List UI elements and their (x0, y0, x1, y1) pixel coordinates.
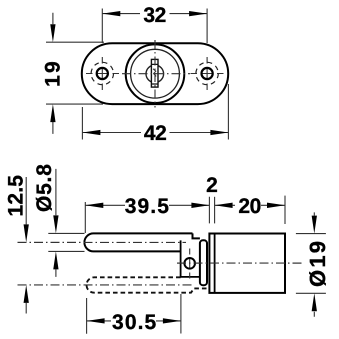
dimension 19 (42, 13, 104, 134)
svg-text:30.5: 30.5 (112, 311, 157, 334)
dimension dia 5.8 (33, 163, 85, 277)
centerline vertical of cylinder (154, 40, 156, 108)
dimension 30.5 (87, 294, 181, 334)
bracket housing (181, 240, 200, 277)
svg-text:Ø19: Ø19 (305, 239, 330, 287)
svg-text:Ø5.8: Ø5.8 (33, 163, 56, 212)
keyhole slot (151, 59, 158, 87)
lock body (209, 234, 285, 293)
dimension 32 (102, 4, 207, 43)
pin crosshair (189, 249, 191, 279)
svg-text:2: 2 (206, 174, 218, 197)
plate outline (82, 43, 228, 104)
rod step to cam (193, 233, 200, 238)
body centerline (over body) (177, 262, 303, 264)
dimension 39.5 (85, 195, 209, 233)
key wards zigzag (153, 69, 156, 77)
dimension 42 (82, 84, 228, 145)
cylinder outer circle (126, 44, 185, 103)
centerline horizontal of cylinder (over plate) (122, 73, 190, 75)
svg-text:39.5: 39.5 (125, 195, 170, 218)
dimension 2 (206, 174, 232, 224)
top rod outline (84, 233, 192, 251)
countersink dashed left (91, 62, 113, 84)
svg-text:19: 19 (42, 59, 65, 87)
svg-text:42: 42 (144, 122, 167, 145)
cylinder inner circle (131, 49, 180, 98)
svg-text:32: 32 (143, 4, 166, 27)
dimension 20 (233, 195, 285, 224)
centerline top rod (18, 241, 187, 243)
hidden bottom rod dashed (86, 277, 207, 292)
svg-text:20: 20 (238, 195, 261, 218)
countersink dashed right (196, 62, 218, 84)
crosshair left hole (86, 57, 119, 90)
svg-text:12.5: 12.5 (5, 175, 28, 217)
body collar step line (214, 234, 216, 293)
dimension dia 19 (296, 212, 330, 316)
dimension 12.5 (5, 175, 29, 314)
screw hole left (97, 68, 108, 79)
centerline horizontal of cylinder (122, 73, 190, 75)
screw hole right (202, 68, 213, 79)
crosshair right hole (191, 57, 224, 90)
centerline vertical of cylinder (over plate) (154, 40, 156, 108)
centerline bottom rod (18, 284, 194, 286)
centerline top rod (over rod) (18, 241, 187, 243)
centerline body axis (177, 262, 303, 264)
cam plate (200, 240, 207, 285)
keyhole boss circle (146, 65, 164, 83)
pin circle (184, 258, 195, 269)
